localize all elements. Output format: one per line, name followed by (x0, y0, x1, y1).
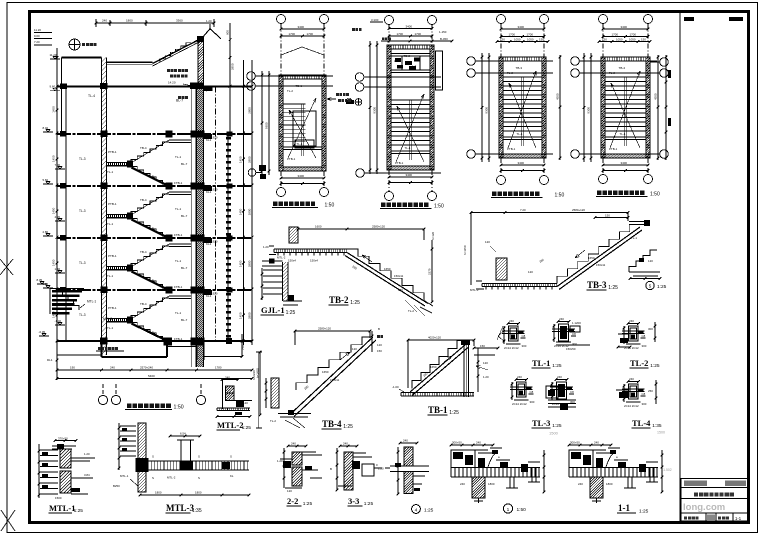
plan P2 top dimension lines (388, 25, 434, 38)
svg-text:TB-3: TB-3 (516, 66, 523, 70)
svg-text:240: 240 (557, 375, 562, 379)
svg-text:150: 150 (377, 349, 382, 353)
svg-text:TB-2: TB-2 (329, 295, 349, 305)
svg-text:240: 240 (291, 442, 296, 446)
stair flight down storey 3 (131, 219, 170, 240)
svg-text:1500: 1500 (549, 431, 559, 436)
svg-text:250: 250 (648, 389, 653, 393)
plan P2 bottom dims (388, 173, 434, 184)
svg-text:120: 120 (483, 361, 488, 365)
svg-text:3400: 3400 (518, 161, 525, 165)
svg-text:TB-4: TB-4 (140, 198, 147, 202)
plan P2 upper room beams (391, 54, 430, 73)
svg-text:2800: 2800 (248, 260, 252, 267)
gray text 1500 left (549, 431, 559, 436)
svg-text:150x11: 150x11 (394, 274, 404, 278)
detail TB-3 top platform (629, 220, 650, 240)
foundation right line (204, 334, 246, 358)
svg-text:TL-1: TL-1 (631, 236, 637, 240)
trim mark X left middle (0, 259, 13, 275)
svg-text:1500: 1500 (55, 496, 62, 500)
detail 3-3 section (330, 442, 382, 492)
detail TB-1 right dims (473, 344, 500, 392)
detail TB-4 right note col (371, 327, 383, 353)
svg-text:240: 240 (517, 375, 522, 379)
svg-text:750: 750 (241, 345, 245, 350)
plan P3 stair arrow up (508, 71, 536, 148)
svg-text:BL-7: BL-7 (176, 99, 183, 103)
svg-text:150: 150 (641, 38, 646, 42)
detail TL-2 section (617, 319, 657, 350)
svg-text:240: 240 (578, 482, 583, 486)
stair flight down storey 4 (131, 271, 170, 292)
svg-text:9300: 9300 (373, 107, 377, 114)
stair flight down storey 2 (131, 167, 170, 188)
detail TB-2 top dims (297, 225, 426, 244)
svg-text:1:50: 1:50 (325, 203, 335, 209)
plan P1 top dimension lines (280, 25, 326, 37)
svg-text:240: 240 (476, 441, 481, 445)
svg-text:2800: 2800 (248, 156, 252, 163)
detail MTL-2 base (216, 401, 252, 418)
stair flight up storey 2 (131, 140, 169, 163)
svg-text:TL-2: TL-2 (408, 309, 414, 313)
svg-text:1:25: 1:25 (286, 310, 296, 316)
svg-text:TL-1: TL-1 (175, 155, 182, 159)
svg-text:1920: 1920 (211, 188, 218, 192)
svg-text:1450: 1450 (239, 312, 243, 319)
plan P4 stair arrow down (611, 83, 640, 148)
svg-text:S: S (198, 455, 200, 459)
plan P3 bottom wall dark band (503, 154, 542, 158)
svg-text:1-1: 1-1 (618, 503, 630, 513)
detail TL-1 section a (497, 319, 527, 350)
storey 3 level markers (43, 178, 66, 221)
svg-text:B-450: B-450 (440, 37, 448, 41)
svg-text:1.20: 1.20 (84, 452, 90, 456)
plan P1 landing rect (293, 111, 316, 148)
svg-text:300: 300 (642, 344, 647, 348)
svg-text:TL-1: TL-1 (107, 222, 114, 226)
svg-text:FTB-1: FTB-1 (174, 181, 183, 185)
storey 4 level markers (43, 230, 66, 273)
svg-text:240: 240 (559, 317, 564, 321)
svg-text:TL-1: TL-1 (107, 274, 114, 278)
floor slab line storey 5 (57, 289, 252, 291)
detail MTL-3 column (113, 423, 149, 492)
svg-text:h=2220: h=2220 (252, 370, 256, 380)
detail TB-2 landing slab (263, 245, 347, 263)
svg-text:1650: 1650 (588, 256, 595, 260)
section bottom dim line 1 (56, 366, 254, 372)
svg-text:1-1: 1-1 (735, 516, 742, 521)
floor beam blobs storey 5 (60, 287, 233, 296)
svg-text:1: 1 (507, 507, 510, 513)
gray level text near 1-1 (662, 468, 672, 472)
svg-text:FTB-1: FTB-1 (174, 233, 183, 237)
svg-text:-1.502: -1.502 (662, 468, 672, 472)
svg-text:PTB-1: PTB-1 (609, 147, 618, 151)
svg-text:120: 120 (398, 288, 403, 292)
detail circle-5 steps (629, 250, 662, 280)
svg-text:240: 240 (343, 442, 348, 446)
floor slab line storey 2 (57, 133, 252, 135)
svg-text:PTB-1: PTB-1 (108, 306, 117, 310)
section right axis bubble (248, 165, 266, 179)
svg-text:BL-7: BL-7 (181, 318, 188, 322)
svg-text:1780: 1780 (215, 366, 222, 370)
label TB-3 (587, 280, 619, 291)
svg-text:1450: 1450 (239, 208, 243, 215)
title block watermark (683, 502, 725, 513)
svg-text:150: 150 (602, 38, 607, 42)
storey 5 text labels (79, 292, 218, 342)
svg-text:MTL-3: MTL-3 (470, 288, 479, 292)
svg-text:150: 150 (539, 38, 544, 42)
gray text 1500 right (657, 431, 665, 435)
svg-text:240: 240 (460, 482, 465, 486)
label GJL-1 (261, 305, 296, 316)
plan P4 top axis bubbles (599, 15, 653, 159)
svg-text:4: 4 (415, 508, 418, 514)
svg-text:120: 120 (352, 347, 357, 351)
svg-text:2C14 2C12: 2C14 2C12 (512, 402, 527, 406)
detail TB-1 right column (461, 340, 470, 397)
plan P3 inner wall (503, 61, 542, 154)
svg-text:1650: 1650 (384, 267, 391, 271)
svg-text:TB-3: TB-3 (587, 280, 607, 290)
plan P1 inner wall (283, 79, 322, 167)
svg-text:300: 300 (648, 327, 653, 331)
svg-text:3400: 3400 (298, 25, 305, 29)
svg-text:240: 240 (594, 441, 599, 445)
svg-text:3400: 3400 (621, 25, 628, 29)
svg-text:1600: 1600 (315, 225, 322, 229)
svg-text:2800: 2800 (248, 312, 252, 319)
plan P3 right dim chain (556, 55, 562, 160)
plan P1 bottom dims (280, 174, 326, 185)
svg-text:8.35: 8.35 (37, 278, 43, 282)
svg-text:1920: 1920 (211, 240, 218, 244)
plan P3 top dimension lines (500, 25, 546, 38)
svg-text:2279: 2279 (428, 268, 432, 275)
svg-text:MTL-3: MTL-3 (166, 503, 194, 513)
svg-text:1-150: 1-150 (439, 30, 447, 34)
svg-text:TL-3: TL-3 (79, 261, 86, 265)
svg-text:190: 190 (70, 366, 75, 370)
svg-text:GJL-1: GJL-1 (261, 305, 285, 315)
stair flight up storey 5 (131, 296, 169, 319)
label 1-1 (617, 503, 649, 515)
level marker roof (50, 53, 61, 59)
svg-text:1:25: 1:25 (449, 410, 459, 416)
detail TB-4 bottom foot (270, 410, 311, 428)
detail TB-4 top dim (294, 327, 372, 346)
svg-text:9300: 9300 (265, 122, 269, 129)
plan P1 left axis bubbles (247, 72, 333, 91)
plan P3 stair arrow down (509, 83, 536, 148)
storey 2 text labels (79, 136, 218, 186)
svg-text:h=1150: h=1150 (463, 245, 467, 255)
svg-text:3400: 3400 (406, 25, 413, 29)
svg-text:120: 120 (485, 240, 490, 244)
plan P4 stair arrow up (610, 71, 640, 148)
section left dim chain (52, 48, 59, 380)
plan P1 outer wall (279, 75, 326, 171)
mid landing slab storey 3 (107, 213, 134, 220)
plan P2 inner wall (391, 49, 430, 166)
svg-text:11.20: 11.20 (34, 28, 41, 32)
svg-text:7.00: 7.00 (55, 163, 61, 167)
svg-text:6.54: 6.54 (180, 432, 186, 436)
svg-text:QL1: QL1 (205, 88, 211, 92)
detail TL-3 section b (546, 375, 576, 410)
storey 3 text labels (79, 188, 218, 238)
svg-text:1800: 1800 (488, 482, 495, 486)
plan P4 extra top dim (598, 38, 652, 43)
svg-text:3400: 3400 (621, 161, 628, 165)
top storey texts (88, 94, 188, 103)
plan P2 left axis bubbles (355, 73, 441, 178)
svg-text:2800: 2800 (248, 208, 252, 215)
mid landing slab storey 2 (107, 161, 134, 168)
svg-text:240: 240 (509, 319, 514, 323)
svg-text:TL-1: TL-1 (620, 132, 626, 136)
plan P2 interior labels (395, 54, 411, 165)
svg-text:MTL-2: MTL-2 (277, 256, 286, 260)
svg-text:11.20: 11.20 (50, 53, 57, 57)
svg-text:3400: 3400 (298, 174, 305, 178)
svg-text:PTB-1: PTB-1 (507, 147, 516, 151)
mid landing slab storey 5 (107, 317, 134, 324)
plan P3 left axis bubbles (467, 57, 553, 159)
section axis bubbles bottom (98, 384, 205, 405)
detail TL-4 section (616, 377, 657, 408)
svg-text:1700: 1700 (397, 32, 404, 36)
svg-text:1650: 1650 (430, 365, 437, 369)
svg-text:long.com: long.com (683, 502, 725, 513)
plan P2 stair arrow up (396, 94, 424, 162)
svg-text:1:25: 1:25 (74, 508, 84, 514)
detail TB-2 column hatch (289, 227, 298, 243)
svg-text:TL-1: TL-1 (297, 142, 303, 146)
column K2 lower with hatch (197, 86, 204, 367)
svg-text:-1.40: -1.40 (55, 319, 62, 323)
plan P1 bottom wall dark band (283, 167, 322, 171)
plan P4 left dim chain (583, 53, 593, 162)
svg-text:TL-2: TL-2 (270, 419, 276, 423)
svg-text:TL-1: TL-1 (175, 259, 182, 263)
plan P1 landing band (283, 147, 322, 150)
svg-text:4020+120: 4020+120 (428, 336, 441, 340)
svg-text:-0.05: -0.05 (39, 330, 46, 334)
svg-text:1700: 1700 (612, 33, 619, 37)
plan P3 left dim chain (481, 53, 491, 162)
detail TB-3 top dims (470, 208, 630, 280)
plan P3 extra top dim (496, 38, 550, 43)
svg-text:C8: C8 (642, 392, 646, 396)
label TL-1 (532, 358, 562, 369)
svg-text:BL-7: BL-7 (181, 266, 188, 270)
svg-text:2580+120: 2580+120 (318, 327, 331, 331)
entrance steps section (50, 289, 84, 315)
svg-text:14.20: 14.20 (168, 81, 176, 85)
plan P2 bottom axis bubbles (385, 170, 437, 201)
svg-text:2570+240: 2570+240 (140, 366, 153, 370)
ground floor line (57, 338, 252, 346)
svg-text:1700: 1700 (630, 33, 637, 37)
detail MTL-2 column (221, 376, 240, 410)
detail TB-4 flight slab (291, 337, 376, 417)
svg-text:1:35: 1:35 (192, 508, 202, 514)
svg-text:240: 240 (629, 319, 634, 323)
MTL-2 right dim line (252, 352, 262, 428)
svg-text:1050: 1050 (514, 38, 521, 42)
svg-text:8.40: 8.40 (43, 126, 49, 130)
svg-text:h=120: h=120 (431, 231, 435, 240)
svg-text:FTB-1: FTB-1 (174, 285, 183, 289)
svg-text:150x4: 150x4 (288, 259, 296, 263)
svg-text:1.20: 1.20 (263, 245, 269, 249)
plan P3 bottom dims (500, 161, 546, 172)
svg-text:7.20: 7.20 (520, 208, 526, 212)
svg-text:1450: 1450 (52, 106, 56, 113)
svg-text:TL-3: TL-3 (79, 313, 86, 317)
plan P4 right axis bubbles (650, 58, 668, 159)
svg-text:9.60: 9.60 (34, 34, 40, 38)
detail TB-3 left dim (463, 213, 471, 286)
plan P2 landing band (391, 151, 430, 154)
vertical dim right upper (226, 23, 235, 134)
svg-text:4.20: 4.20 (55, 215, 61, 219)
detail TB-3 flight dims (528, 250, 606, 274)
detail TB-4 flight dims (303, 347, 357, 391)
svg-text:9300: 9300 (587, 107, 591, 114)
svg-text:C8: C8 (572, 332, 576, 336)
svg-text:MTL-1: MTL-1 (87, 300, 96, 304)
svg-text:3-3: 3-3 (348, 496, 359, 506)
detail TB-2 bottom foot (405, 300, 433, 316)
svg-text:PTB-1: PTB-1 (108, 202, 117, 206)
svg-text:150: 150 (500, 38, 505, 42)
stair flight up storey 3 (131, 192, 169, 215)
plan P4 stair treads (605, 77, 646, 131)
roof text labels (167, 69, 211, 92)
svg-text:1050: 1050 (629, 38, 636, 42)
svg-text:KL: KL (230, 474, 234, 478)
svg-text:BL-7: BL-7 (181, 162, 188, 166)
svg-text:7.20: 7.20 (34, 40, 40, 44)
plan P2 roof flag note (352, 18, 383, 31)
column K2 upper with hatch (197, 36, 204, 86)
plan P2 top extra dim (381, 37, 453, 42)
plan P4 bottom axis bubbles (599, 158, 653, 184)
svg-text:TL-3: TL-3 (532, 418, 550, 428)
svg-text:300+50: 300+50 (570, 441, 580, 445)
svg-text:2-2: 2-2 (287, 496, 298, 506)
svg-text:1:25: 1:25 (608, 285, 618, 291)
svg-text:TL-1: TL-1 (532, 358, 550, 368)
svg-text:TB-4: TB-4 (147, 226, 154, 230)
detail TB-1 flight dims (422, 356, 452, 378)
plan P2 top axis bubbles (385, 16, 437, 171)
svg-text:5400: 5400 (148, 374, 155, 378)
svg-text:240: 240 (110, 366, 115, 370)
svg-text:S: S (152, 455, 154, 459)
storey 4 text labels (79, 240, 218, 290)
svg-text:1650: 1650 (322, 370, 329, 374)
label MTL-1 (49, 503, 84, 514)
svg-text:1:25: 1:25 (242, 425, 252, 431)
plan P4 left axis bubbles (571, 57, 657, 159)
svg-text:300+50: 300+50 (452, 441, 462, 445)
svg-text:2580+120: 2580+120 (372, 225, 385, 229)
svg-text:370+50: 370+50 (58, 437, 68, 441)
plan P1 stair treads (283, 104, 306, 142)
svg-text:TL-1: TL-1 (175, 311, 182, 315)
svg-text:C8: C8 (522, 334, 526, 338)
svg-text:150x11: 150x11 (596, 263, 606, 267)
label TL-2 (630, 358, 660, 369)
section caption (125, 403, 184, 410)
detail TB-3 flight steps (557, 224, 640, 283)
detail TB-2 flight dims (351, 231, 435, 292)
plan P3 outer wall (499, 57, 546, 158)
svg-text:1450: 1450 (52, 207, 56, 214)
foundation outline (47, 341, 204, 362)
svg-text:2C14 2C12: 2C14 2C12 (624, 346, 639, 350)
detail TB-2 flight slab (345, 253, 428, 307)
svg-text:120: 120 (243, 401, 248, 405)
section right dim chain 3 (248, 60, 254, 345)
svg-text:2850: 2850 (231, 63, 235, 70)
wall W2 double line (191, 86, 195, 367)
plan P1 wall hatch (279, 75, 326, 171)
detail TB-3 flight slab (557, 227, 642, 290)
svg-text:C8: C8 (642, 334, 646, 338)
floor beam blobs storey 2 (60, 131, 233, 140)
svg-text:1050: 1050 (616, 38, 623, 42)
svg-text:2.80: 2.80 (43, 230, 49, 234)
svg-text:B250: B250 (113, 484, 120, 488)
svg-text:1920: 1920 (211, 136, 218, 140)
entrance text MTL-1 (80, 300, 112, 322)
svg-text:1700: 1700 (289, 32, 296, 36)
svg-text:1:25: 1:25 (364, 501, 374, 507)
label TB-4 (322, 419, 354, 430)
svg-text:2800: 2800 (248, 107, 252, 114)
svg-text:120: 120 (377, 343, 382, 347)
svg-text:MTL-2: MTL-2 (167, 476, 176, 480)
label TL-3 (532, 418, 562, 429)
level marker machine (50, 85, 61, 91)
detail TB-4 left dim (256, 351, 262, 417)
trim mark X bottom left (1, 510, 15, 531)
plan P1 caption (272, 202, 334, 209)
svg-text:1:25: 1:25 (657, 284, 667, 290)
svg-text:1700: 1700 (527, 33, 534, 37)
section left wall line (62, 58, 67, 342)
label circle-5 (646, 281, 667, 290)
svg-text:PTB-1: PTB-1 (395, 161, 404, 165)
plan P2 left dim chain (369, 41, 379, 174)
svg-text:150: 150 (605, 214, 610, 218)
svg-text:2580+120: 2580+120 (572, 208, 585, 212)
svg-text:1.20: 1.20 (483, 375, 489, 379)
svg-text:1450: 1450 (52, 259, 56, 266)
svg-text:240: 240 (403, 439, 408, 443)
plan P4 wall hatch (601, 57, 650, 158)
